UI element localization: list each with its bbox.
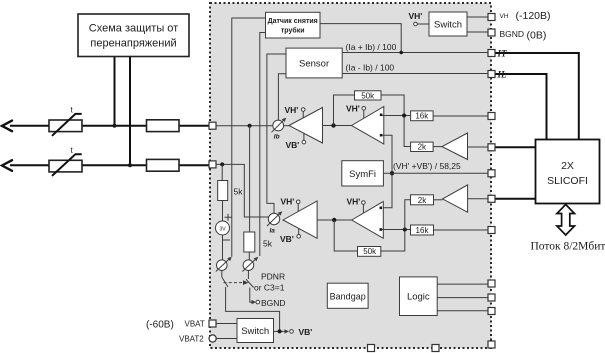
svg-text:VH': VH' xyxy=(409,11,423,21)
svg-text:VB': VB' xyxy=(280,234,294,244)
svg-text:50k: 50k xyxy=(361,91,375,100)
svg-text:2k: 2k xyxy=(418,143,427,152)
svg-text:Ib: Ib xyxy=(274,134,280,141)
svg-text:SLICOFI: SLICOFI xyxy=(547,175,588,187)
svg-text:(Ia - Ib) / 100: (Ia - Ib) / 100 xyxy=(346,63,395,73)
svg-text:(Ia + Ib) / 100: (Ia + Ib) / 100 xyxy=(346,42,397,52)
svg-text:VH': VH' xyxy=(347,197,361,207)
svg-text:Sensor: Sensor xyxy=(299,59,329,70)
svg-text:Switch: Switch xyxy=(434,20,462,31)
svg-text:5k: 5k xyxy=(263,239,273,249)
svg-text:Поток 8/2Мбит/с: Поток 8/2Мбит/с xyxy=(531,241,605,253)
svg-text:SymFi: SymFi xyxy=(349,169,376,180)
svg-text:Датчик снятия: Датчик снятия xyxy=(268,18,318,25)
svg-text:or C3=1: or C3=1 xyxy=(254,283,285,293)
svg-text:5k: 5k xyxy=(234,187,244,197)
svg-text:Logic: Logic xyxy=(407,292,430,303)
svg-text:3V: 3V xyxy=(219,227,226,233)
svg-text:50k: 50k xyxy=(363,247,377,256)
svg-text:VH': VH' xyxy=(285,105,299,115)
svg-text:Bandgap: Bandgap xyxy=(330,292,366,302)
svg-text:Схема защиты от: Схема защиты от xyxy=(89,23,178,35)
svg-text:BGND: BGND xyxy=(500,29,525,39)
svg-text:IL: IL xyxy=(497,70,508,80)
svg-text:16k: 16k xyxy=(416,226,430,235)
svg-text:Switch: Switch xyxy=(241,326,269,337)
svg-text:Ia: Ia xyxy=(270,228,276,235)
svg-text:(-120В): (-120В) xyxy=(516,10,551,22)
svg-text:VH: VH xyxy=(500,13,509,20)
svg-text:VBAT: VBAT xyxy=(185,320,205,329)
svg-text:(-60В): (-60В) xyxy=(146,320,174,331)
svg-text:VH': VH' xyxy=(281,197,295,207)
svg-text:перенапряжений: перенапряжений xyxy=(90,38,176,50)
svg-text:(0В): (0В) xyxy=(527,30,547,42)
svg-text:VH': VH' xyxy=(346,104,360,114)
svg-text:(VH' +VB') / 58,25: (VH' +VB') / 58,25 xyxy=(393,161,461,171)
svg-text:16k: 16k xyxy=(415,112,429,121)
svg-text:VB': VB' xyxy=(286,140,300,150)
svg-text:PDNR: PDNR xyxy=(261,272,285,282)
svg-text:BGND: BGND xyxy=(261,298,286,308)
svg-text:IT: IT xyxy=(497,49,508,59)
svg-text:2k: 2k xyxy=(418,196,427,205)
svg-text:2X: 2X xyxy=(561,160,574,172)
svg-text:трубки: трубки xyxy=(281,26,305,34)
svg-text:VBAT2: VBAT2 xyxy=(179,335,204,344)
svg-text:VB': VB' xyxy=(299,327,313,337)
